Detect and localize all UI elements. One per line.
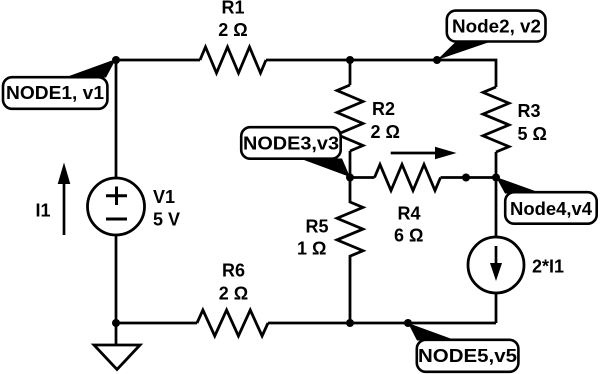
svg-text:I1: I1: [36, 201, 51, 221]
svg-text:2 Ω: 2 Ω: [218, 20, 247, 40]
wire: top rail right segment (R1 to top-right corner, down to R3): [266, 60, 496, 87]
junction dot R4 right terminal (466,177.5): [462, 174, 470, 182]
wire: R4 to Node4: [441, 176, 497, 179]
svg-text:NODE5,v5: NODE5,v5: [418, 346, 517, 366]
svg-text:6 Ω: 6 Ω: [394, 226, 423, 246]
wire: bottom rail right segment (corner through NODE5 to R6): [268, 322, 496, 325]
callout label Node4,v4: [496, 177, 597, 224]
junction dot NODE3 (350,177.5): [346, 174, 354, 182]
svg-text:Node4,v4: Node4,v4: [510, 199, 592, 219]
resistor R1: [200, 47, 266, 73]
svg-text:V1: V1: [153, 187, 175, 207]
resistor R5 (with stubs to NODE3 and bottom rail): [337, 178, 363, 324]
junction dot Node4 (496,177.5): [492, 174, 500, 182]
callout label NODE3,v3: [241, 127, 350, 177]
svg-text:5 V: 5 V: [153, 210, 180, 230]
resistor R4: [375, 165, 441, 191]
junction dot mid-top (350,60): [346, 56, 354, 64]
svg-text:Node2, v2: Node2, v2: [452, 17, 541, 37]
junction dot Node2 (437,60): [433, 56, 441, 64]
svg-text:NODE3,v3: NODE3,v3: [243, 133, 339, 153]
svg-text:R1: R1: [221, 0, 244, 18]
callout label NODE1, v1: [3, 59, 116, 109]
voltage source V1: [88, 178, 145, 235]
svg-text:R5: R5: [306, 216, 329, 236]
wire: mid rail top (top rail down to R2): [349, 60, 352, 85]
svg-text:R2: R2: [372, 99, 395, 119]
R4 current direction arrow: [391, 147, 457, 159]
wire: V1 to ground node: [115, 235, 118, 323]
junction dot NODE1 (116,60): [112, 56, 120, 64]
svg-text:2 Ω: 2 Ω: [371, 122, 400, 142]
resistor R2: [337, 85, 363, 151]
wire: R2 to NODE3: [349, 151, 352, 178]
svg-text:R4: R4: [398, 203, 421, 223]
current source B1 (dependent, 2*I1): [468, 237, 524, 293]
svg-text:R3: R3: [518, 101, 541, 121]
wire: top rail left segment (NODE1 to R1): [116, 59, 200, 62]
wire: NODE3 to R4: [350, 176, 375, 179]
wire: left rail (NODE1 down to V1): [115, 60, 118, 178]
wire: bottom rail left segment (R6 to ground node): [116, 322, 197, 325]
svg-text:2*I1: 2*I1: [532, 257, 564, 277]
resistor R3: [483, 87, 509, 152]
callout label NODE5,v5: [408, 323, 518, 372]
svg-text:R6: R6: [222, 260, 245, 280]
junction dot R5 bottom (350,323): [346, 319, 354, 327]
junction dot NODE5 (408,323): [404, 319, 412, 327]
wire: right rail from R3 through Node4 junction to current source: [495, 152, 498, 237]
svg-text:1 Ω: 1 Ω: [297, 239, 326, 259]
svg-text:5 Ω: 5 Ω: [518, 124, 547, 144]
svg-text:2 Ω: 2 Ω: [219, 284, 248, 304]
resistor R6: [197, 310, 268, 336]
svg-text:NODE1, v1: NODE1, v1: [6, 83, 104, 103]
junction dot ground node (116,323): [112, 319, 120, 327]
callout label Node2, v2: [437, 11, 546, 60]
ground: [94, 323, 140, 370]
current arrow I1 (source current direction): [58, 163, 71, 236]
wire: current source to bottom-right corner: [495, 293, 498, 323]
